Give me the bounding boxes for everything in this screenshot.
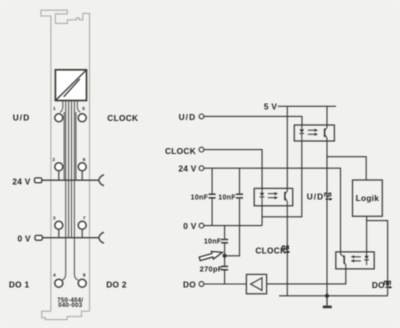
svg-text:2: 2 <box>52 157 55 163</box>
svg-text:U/D: U/D <box>307 192 325 202</box>
svg-text:5: 5 <box>82 106 85 112</box>
svg-text:DO 2: DO 2 <box>106 280 127 290</box>
svg-text:040-003: 040-003 <box>58 303 82 309</box>
svg-text:Logik: Logik <box>356 193 380 203</box>
svg-text:3: 3 <box>53 215 56 221</box>
svg-text:U/D: U/D <box>13 112 31 122</box>
svg-text:DO 1: DO 1 <box>9 280 30 290</box>
svg-text:CLOCK: CLOCK <box>165 146 196 156</box>
svg-text:7: 7 <box>83 215 86 221</box>
svg-text:24 V: 24 V <box>178 164 196 174</box>
svg-text:0 V: 0 V <box>183 221 197 231</box>
svg-text:CLOCK: CLOCK <box>255 246 286 256</box>
svg-text:CLOCK: CLOCK <box>107 113 138 123</box>
svg-text:DO: DO <box>183 280 196 290</box>
svg-text:1: 1 <box>53 106 56 112</box>
svg-text:10nF: 10nF <box>218 194 236 201</box>
svg-text:0 V: 0 V <box>18 233 32 243</box>
svg-text:DO: DO <box>372 280 385 290</box>
svg-text:U/D: U/D <box>179 112 197 122</box>
svg-text:270pF: 270pF <box>200 264 223 273</box>
svg-text:8: 8 <box>83 272 86 278</box>
svg-text:10nF: 10nF <box>191 194 209 201</box>
svg-text:10nF: 10nF <box>204 239 222 246</box>
svg-text:4: 4 <box>53 272 56 278</box>
svg-text:6: 6 <box>83 157 86 163</box>
svg-text:5 V: 5 V <box>264 102 278 112</box>
svg-text:24 V: 24 V <box>12 177 30 187</box>
